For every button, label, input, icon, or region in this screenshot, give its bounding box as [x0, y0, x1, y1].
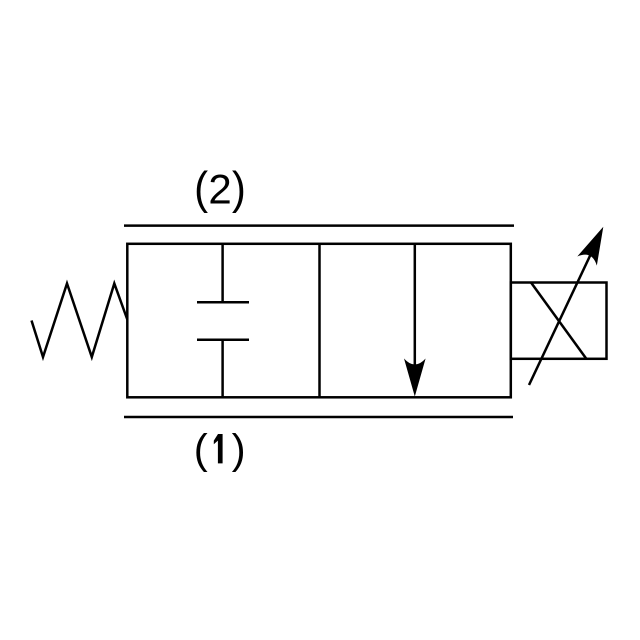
solenoid diagonal	[531, 283, 587, 360]
svg-text:(: (	[194, 163, 208, 214]
svg-text:): )	[232, 163, 246, 214]
blocked port symbol upper bar	[197, 301, 249, 304]
flow arrow	[404, 244, 426, 397]
spring	[32, 284, 128, 358]
solenoid box	[511, 283, 607, 359]
blocked port symbol upper stem	[221, 244, 224, 302]
blocked port symbol lower stem	[221, 340, 224, 398]
port line (2)	[124, 224, 514, 227]
label (2)	[194, 163, 246, 214]
blocked port symbol lower bar	[197, 339, 249, 342]
svg-text:(: (	[194, 425, 208, 472]
label (1)	[194, 425, 246, 472]
port line (1)	[124, 416, 513, 419]
svg-text:2: 2	[208, 166, 231, 213]
svg-text:): )	[232, 425, 246, 472]
proportional arrow	[529, 222, 613, 385]
valve envelope	[127, 244, 511, 397]
position divider	[318, 244, 321, 397]
